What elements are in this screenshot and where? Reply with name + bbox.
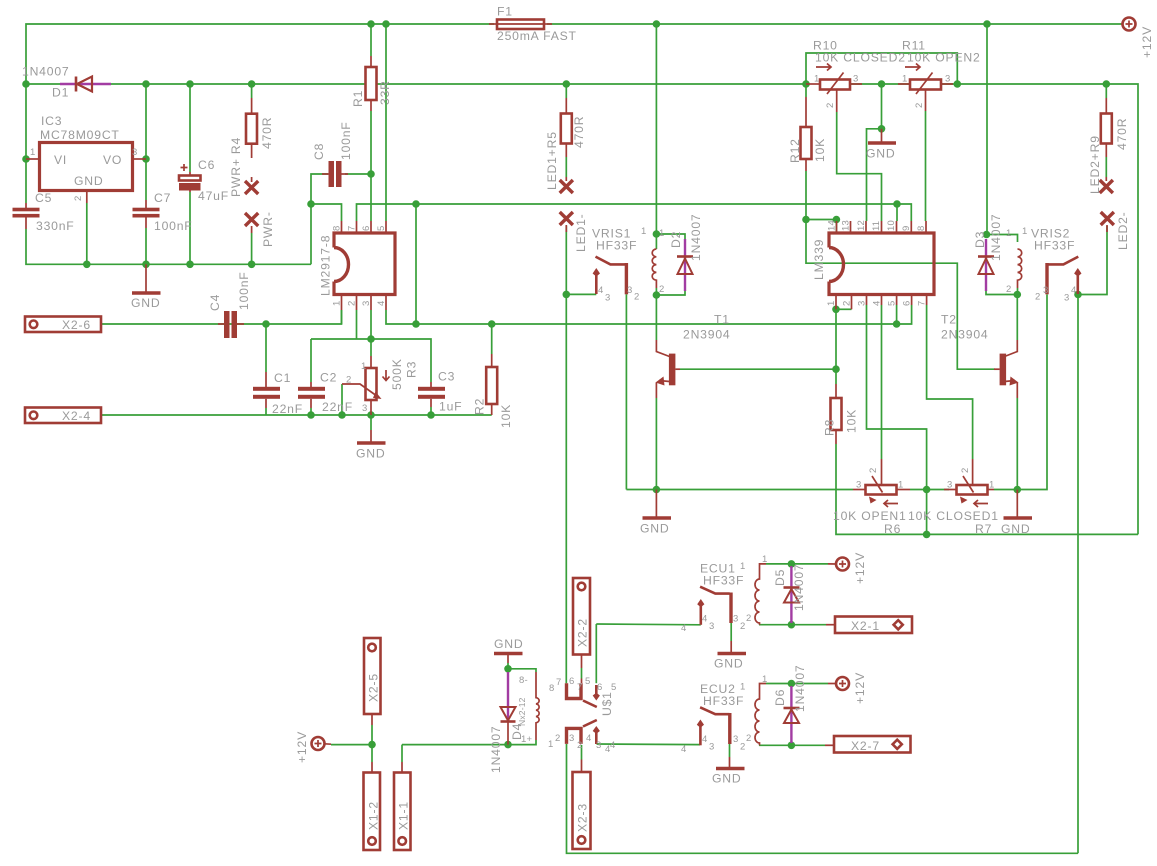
svg-text:470R: 470R <box>1115 118 1129 150</box>
svg-text:GND: GND <box>494 637 523 651</box>
svg-text:1N4007: 1N4007 <box>793 665 807 713</box>
svg-text:F1: F1 <box>497 5 513 19</box>
svg-text:C6: C6 <box>198 158 215 172</box>
svg-text:R6: R6 <box>884 522 901 536</box>
svg-text:10K: 10K <box>499 404 513 428</box>
svg-text:D3: D3 <box>973 231 987 248</box>
svg-text:8: 8 <box>916 226 927 231</box>
svg-text:X2-4: X2-4 <box>62 409 91 423</box>
svg-text:C4: C4 <box>208 294 222 311</box>
svg-text:250mA FAST: 250mA FAST <box>497 29 577 43</box>
svg-text:GND: GND <box>1001 522 1030 536</box>
svg-text:X2-5: X2-5 <box>367 673 381 702</box>
svg-text:3: 3 <box>709 742 714 753</box>
svg-text:1N4007: 1N4007 <box>792 564 806 612</box>
svg-text:2: 2 <box>842 301 853 306</box>
svg-text:470R: 470R <box>260 117 274 149</box>
svg-text:7: 7 <box>347 226 358 231</box>
svg-text:HF33F: HF33F <box>703 574 744 588</box>
svg-text:+12V: +12V <box>1140 26 1154 58</box>
svg-text:4: 4 <box>702 614 707 625</box>
svg-text:D2: D2 <box>669 231 683 248</box>
svg-text:D5: D5 <box>773 569 787 586</box>
svg-text:C5: C5 <box>35 191 52 205</box>
svg-text:1: 1 <box>332 301 343 306</box>
svg-text:4: 4 <box>598 285 603 296</box>
svg-text:1: 1 <box>548 739 553 750</box>
svg-text:GND: GND <box>356 447 385 461</box>
svg-text:4: 4 <box>610 740 615 751</box>
svg-text:500K: 500K <box>390 358 404 390</box>
svg-text:4: 4 <box>376 301 387 306</box>
svg-text:T1: T1 <box>714 313 730 327</box>
svg-text:11: 11 <box>871 221 882 231</box>
svg-text:2: 2 <box>347 301 358 306</box>
svg-text:330nF: 330nF <box>36 219 75 233</box>
svg-text:X1-1: X1-1 <box>397 801 411 830</box>
svg-text:X2-7: X2-7 <box>851 739 880 753</box>
svg-text:2: 2 <box>740 621 745 632</box>
svg-text:C1: C1 <box>274 371 291 385</box>
svg-text:47uF: 47uF <box>198 189 229 203</box>
svg-text:X2-6: X2-6 <box>62 318 91 332</box>
svg-text:3: 3 <box>856 480 861 491</box>
svg-text:10K OPEN1: 10K OPEN1 <box>833 509 907 523</box>
svg-text:8: 8 <box>549 683 554 694</box>
svg-text:470R: 470R <box>572 116 586 148</box>
svg-text:4: 4 <box>586 733 591 744</box>
svg-text:3: 3 <box>945 74 950 85</box>
svg-text:HF33F: HF33F <box>703 694 744 708</box>
svg-text:1: 1 <box>641 226 646 237</box>
svg-text:MC78M09CT: MC78M09CT <box>40 128 120 142</box>
svg-text:GND: GND <box>866 147 895 161</box>
svg-text:3: 3 <box>857 301 868 306</box>
svg-text:1uF: 1uF <box>439 400 462 414</box>
svg-text:X2-2: X2-2 <box>576 618 590 647</box>
svg-text:3: 3 <box>361 301 372 306</box>
svg-text:2N3904: 2N3904 <box>683 328 731 342</box>
svg-text:7: 7 <box>577 682 582 693</box>
svg-text:X1-2: X1-2 <box>367 801 381 830</box>
svg-text:LED1-: LED1- <box>574 213 588 252</box>
svg-text:3: 3 <box>947 480 952 491</box>
svg-text:+12V: +12V <box>853 672 867 704</box>
svg-text:2: 2 <box>960 468 971 473</box>
svg-text:100nF: 100nF <box>154 219 193 233</box>
svg-text:PWR-: PWR- <box>261 211 275 247</box>
svg-text:5: 5 <box>376 226 387 231</box>
svg-text:2: 2 <box>555 733 560 744</box>
svg-text:13: 13 <box>841 220 852 231</box>
svg-text:1N4007: 1N4007 <box>22 65 70 79</box>
svg-text:2: 2 <box>577 740 582 751</box>
svg-text:9: 9 <box>901 226 912 231</box>
svg-text:+12V: +12V <box>853 552 867 584</box>
svg-text:8-: 8- <box>519 675 528 686</box>
svg-text:R12: R12 <box>788 138 802 163</box>
svg-text:VI: VI <box>54 153 67 167</box>
svg-text:2: 2 <box>825 103 836 108</box>
svg-text:4: 4 <box>605 744 610 755</box>
svg-text:1: 1 <box>740 682 745 693</box>
svg-text:1: 1 <box>1006 228 1011 239</box>
svg-text:2: 2 <box>346 375 351 386</box>
svg-text:U$1: U$1 <box>600 691 614 716</box>
svg-text:1: 1 <box>659 228 664 239</box>
svg-text:1: 1 <box>989 480 994 491</box>
svg-text:Nx2-12: Nx2-12 <box>517 697 527 726</box>
svg-text:2N3904: 2N3904 <box>941 328 989 342</box>
svg-text:1: 1 <box>1022 226 1027 237</box>
svg-text:10K CLOSED2: 10K CLOSED2 <box>815 51 906 65</box>
svg-text:GND: GND <box>712 772 741 786</box>
svg-text:VO: VO <box>103 153 122 167</box>
svg-text:1N4007: 1N4007 <box>489 726 503 774</box>
svg-text:1: 1 <box>826 301 837 306</box>
svg-text:C8: C8 <box>312 143 326 160</box>
svg-text:22nF: 22nF <box>272 402 303 416</box>
svg-text:LED1+R5: LED1+R5 <box>545 131 559 190</box>
svg-text:6: 6 <box>569 676 574 687</box>
svg-text:3: 3 <box>362 403 367 414</box>
svg-text:4: 4 <box>872 301 883 306</box>
svg-text:5: 5 <box>887 301 898 306</box>
svg-text:100nF: 100nF <box>339 121 353 160</box>
svg-text:3: 3 <box>853 74 858 85</box>
svg-text:2: 2 <box>746 613 751 624</box>
svg-text:R2: R2 <box>473 398 487 415</box>
svg-text:PWR+ R4: PWR+ R4 <box>229 137 243 197</box>
svg-text:D1: D1 <box>52 86 69 100</box>
svg-text:6: 6 <box>361 226 372 231</box>
svg-text:4: 4 <box>1071 285 1076 296</box>
svg-text:1: 1 <box>762 554 767 565</box>
svg-text:3: 3 <box>605 293 610 304</box>
svg-text:6: 6 <box>902 301 913 306</box>
svg-text:1: 1 <box>898 480 903 491</box>
svg-text:1: 1 <box>814 74 819 85</box>
svg-text:1: 1 <box>30 147 35 158</box>
svg-text:HF33F: HF33F <box>1034 239 1075 253</box>
svg-text:8: 8 <box>332 226 343 231</box>
svg-text:1: 1 <box>740 561 745 572</box>
svg-text:GND: GND <box>74 174 103 188</box>
svg-text:R1: R1 <box>351 90 365 107</box>
svg-text:3: 3 <box>132 147 137 158</box>
svg-text:X2-3: X2-3 <box>576 803 590 832</box>
svg-text:3: 3 <box>1043 285 1048 296</box>
svg-text:2: 2 <box>634 292 639 303</box>
svg-text:7: 7 <box>556 677 561 688</box>
svg-text:10K: 10K <box>813 138 827 162</box>
svg-text:3: 3 <box>709 621 714 632</box>
svg-text:1: 1 <box>361 361 366 372</box>
svg-text:10K CLOSED1: 10K CLOSED1 <box>908 509 999 523</box>
svg-text:12: 12 <box>856 220 867 231</box>
svg-text:2: 2 <box>868 468 879 473</box>
svg-text:1: 1 <box>902 74 907 85</box>
svg-text:GND: GND <box>714 657 743 671</box>
svg-text:2: 2 <box>740 742 745 753</box>
svg-text:2: 2 <box>746 733 751 744</box>
svg-text:HF33F: HF33F <box>596 239 637 253</box>
svg-text:+12V: +12V <box>295 731 309 763</box>
svg-text:7: 7 <box>917 301 928 306</box>
svg-text:2: 2 <box>659 284 664 295</box>
svg-text:C2: C2 <box>320 371 337 385</box>
svg-text:22nF: 22nF <box>322 400 353 414</box>
svg-text:1N4007: 1N4007 <box>689 214 703 262</box>
svg-text:2: 2 <box>1006 284 1011 295</box>
svg-text:IC3: IC3 <box>41 114 62 128</box>
svg-text:5: 5 <box>585 676 590 687</box>
svg-text:R3: R3 <box>405 361 419 378</box>
svg-text:14: 14 <box>827 220 838 231</box>
svg-text:GND: GND <box>640 522 669 536</box>
svg-text:2: 2 <box>914 103 925 108</box>
svg-text:3: 3 <box>627 285 632 296</box>
svg-text:LED2+R9: LED2+R9 <box>1088 135 1102 194</box>
svg-text:100nF: 100nF <box>237 271 251 310</box>
svg-text:R8: R8 <box>823 419 837 436</box>
svg-text:4: 4 <box>702 734 707 745</box>
svg-text:3: 3 <box>733 614 738 625</box>
svg-text:2: 2 <box>73 196 84 201</box>
svg-text:LM339: LM339 <box>812 239 826 280</box>
svg-text:10: 10 <box>886 220 897 231</box>
svg-text:3: 3 <box>569 733 574 744</box>
svg-text:4: 4 <box>681 744 686 755</box>
svg-text:4: 4 <box>681 623 686 634</box>
svg-text:D6: D6 <box>773 689 787 706</box>
svg-text:3: 3 <box>1064 293 1069 304</box>
svg-text:C7: C7 <box>154 191 171 205</box>
svg-text:3: 3 <box>596 740 601 751</box>
svg-text:1: 1 <box>762 674 767 685</box>
svg-text:T2: T2 <box>941 313 957 327</box>
svg-text:LED2-: LED2- <box>1116 211 1130 250</box>
svg-text:10K: 10K <box>845 409 859 433</box>
svg-text:1N4007: 1N4007 <box>989 214 1003 262</box>
svg-text:GND: GND <box>131 296 160 310</box>
svg-text:X2-1: X2-1 <box>851 619 880 633</box>
svg-text:10K OPEN2: 10K OPEN2 <box>907 51 981 65</box>
svg-text:LM2917-8: LM2917-8 <box>319 235 333 296</box>
svg-text:2: 2 <box>1035 292 1040 303</box>
svg-text:33R: 33R <box>378 80 392 105</box>
svg-text:R7: R7 <box>975 522 992 536</box>
svg-text:C3: C3 <box>438 370 455 384</box>
svg-text:3: 3 <box>733 734 738 745</box>
